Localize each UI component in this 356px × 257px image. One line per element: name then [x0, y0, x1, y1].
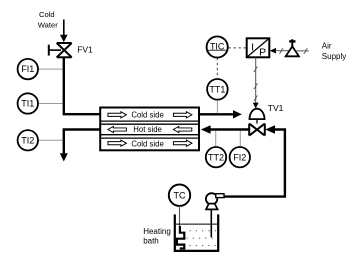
wire hot supply from bath: [265, 125, 275, 133]
instrument FI2: [230, 147, 250, 167]
TV1 stem: [256, 119, 258, 124]
signal TIC to TT1 (dashed): [216, 58, 218, 79]
wire TT1 tap: [216, 100, 218, 114]
node Cold Water label: [38, 10, 58, 30]
flow arrow bottom-left: [108, 140, 127, 146]
svg-text:bath: bath: [143, 237, 159, 246]
water dots: [187, 230, 216, 246]
svg-text:Supply: Supply: [322, 52, 346, 61]
flow arrow top-right: [173, 112, 192, 118]
svg-text:P: P: [259, 47, 266, 59]
instrument TI1: [38, 103, 63, 105]
water surface line: [176, 223, 217, 225]
svg-text:TT2: TT2: [208, 152, 224, 162]
valve TV1 actuator dome: [250, 109, 265, 119]
valve FV1: [49, 43, 72, 57]
svg-text:Air: Air: [322, 42, 332, 51]
drain arrow: [60, 153, 68, 161]
instrument TIC: [207, 36, 228, 57]
instrument FI1: [38, 68, 63, 70]
pump outlet nozzle: [216, 194, 224, 198]
heat exchanger shell: [100, 108, 199, 151]
svg-text:Cold: Cold: [39, 10, 55, 19]
instrument TI2: [38, 139, 63, 141]
air supply line: [295, 50, 308, 52]
pump P1 body: [206, 193, 217, 204]
wire hot into exchanger: [210, 128, 249, 130]
svg-text:TIC: TIC: [210, 42, 225, 52]
converter I/P: [247, 38, 270, 57]
flow arrow bottom-right: [173, 140, 192, 146]
instrument TC: [169, 185, 190, 206]
svg-text:FI1: FI1: [21, 64, 34, 74]
heater coil: [177, 226, 184, 249]
cold outlet arrow: [233, 110, 242, 118]
wire cold water inlet arrow: [63, 20, 65, 36]
heating bath tank: [175, 214, 218, 251]
pump base: [206, 204, 218, 210]
flow arrow hot-left (left pointing hollow): [108, 126, 127, 132]
wire hot outlet drain: [64, 130, 100, 154]
wire TC dip tube: [179, 206, 181, 227]
wire cold outlet: [200, 113, 234, 115]
svg-text:FI2: FI2: [233, 152, 246, 162]
svg-text:TI2: TI2: [21, 135, 34, 145]
valve TV1 body: [249, 124, 265, 136]
wire cold inlet pipe to exchanger: [64, 57, 100, 114]
svg-text:TC: TC: [174, 190, 186, 200]
svg-text:Cold side: Cold side: [131, 111, 164, 120]
svg-text:Hot side: Hot side: [133, 125, 162, 134]
svg-text:Water: Water: [38, 20, 58, 29]
signal TIC to I/P (dashed): [229, 47, 247, 49]
svg-text:TI1: TI1: [21, 99, 34, 109]
svg-text:Heating: Heating: [143, 227, 171, 236]
wire FI2 tap: [239, 131, 241, 147]
svg-text:Cold side: Cold side: [131, 139, 164, 148]
instrument TT2: [206, 147, 226, 167]
label Air Supply: [322, 42, 346, 62]
wire TT2 tap: [215, 131, 217, 147]
svg-text:I: I: [251, 41, 254, 53]
instrument TT1: [207, 79, 228, 100]
flow arrow top-left (right pointing hollow): [108, 112, 192, 147]
pump suction tube: [210, 209, 212, 237]
flow arrow hot-right: [173, 126, 192, 132]
exchanger tube wall lines: [101, 121, 198, 138]
air line into I/P: [270, 48, 276, 54]
svg-text:TT1: TT1: [209, 84, 225, 94]
label Heating bath: [143, 227, 171, 246]
pneumatic signal to TV1: [255, 57, 257, 103]
svg-text:TV1: TV1: [268, 103, 284, 113]
svg-text:FV1: FV1: [77, 45, 93, 55]
air supply regulator: [286, 46, 299, 56]
